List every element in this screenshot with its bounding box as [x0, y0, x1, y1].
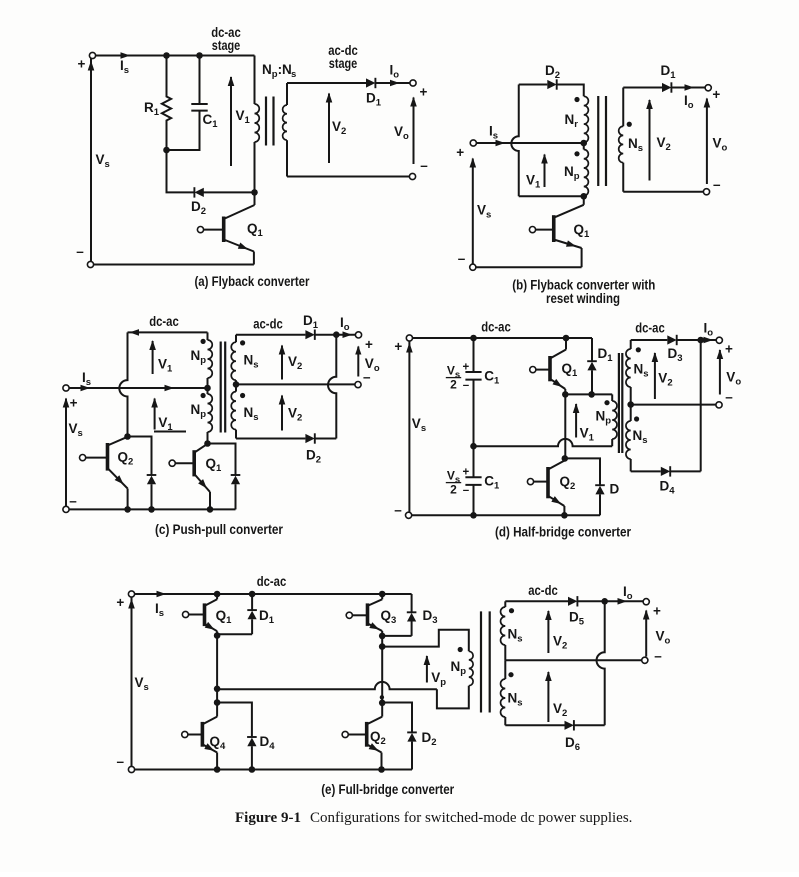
- terminal output -: [703, 189, 709, 195]
- transistor Q3: [366, 603, 370, 626]
- lower primary winding Np: [207, 388, 209, 394]
- transistor Q1: [222, 217, 226, 243]
- terminal - (bottom left): [87, 261, 93, 267]
- terminal + (left): [128, 591, 134, 597]
- current arrow Is: [121, 52, 131, 59]
- wire secondary bottom: [623, 191, 703, 193]
- node right leg junction: [379, 643, 386, 650]
- wire D2 to reset winding: [557, 85, 584, 97]
- node R1-C1 bottom: [163, 147, 170, 154]
- wire secondary bottom: [287, 176, 409, 178]
- svg-text:+: +: [725, 342, 733, 357]
- wire secondary top to D1: [236, 334, 305, 336]
- diode D3: [667, 335, 676, 344]
- polarity dot lower Np: [201, 393, 206, 398]
- svg-text:dc-ac: dc-ac: [635, 321, 665, 336]
- svg-text:–: –: [458, 251, 466, 266]
- wire bottom rail: [69, 508, 235, 510]
- svg-text:dc-ac: dc-ac: [257, 574, 287, 589]
- node secondary center tap (d): [627, 401, 634, 408]
- wire top (source to primary): [96, 55, 255, 57]
- terminal output +: [355, 332, 361, 338]
- transformer T1 core: [265, 97, 267, 146]
- wire left rail Vs: [65, 399, 67, 507]
- wire right leg down through hop: [381, 647, 383, 703]
- terminal output - (e): [642, 657, 648, 663]
- node Q2 diode bottom: [148, 506, 155, 513]
- transistor Q1 (e): [203, 603, 207, 626]
- freewheeling diode at Q1: [208, 444, 236, 476]
- primary winding Np: [584, 150, 589, 196]
- wire secondary bottom to D6: [505, 724, 564, 726]
- current arrow Is near source: [81, 385, 91, 392]
- voltage arrow V1 (d): [575, 404, 577, 438]
- node diode junction: [333, 331, 340, 338]
- voltage arrow Vo: [357, 347, 359, 377]
- terminal - (bottom left): [128, 766, 134, 772]
- transformer T1 secondary winding: [286, 83, 288, 105]
- wire left leg to Np with hop: [217, 682, 437, 689]
- wire between windings: [583, 143, 585, 150]
- svg-text:(d) Half-bridge converter: (d) Half-bridge converter: [495, 525, 632, 540]
- node center tap primary: [204, 385, 211, 392]
- terminal - (bottom left): [406, 512, 412, 518]
- transistor Q1 (d): [548, 356, 552, 381]
- node primary bottom: [580, 193, 587, 200]
- voltage arrow Vo: [706, 99, 708, 185]
- node Q2 emitter bottom (e): [378, 766, 385, 773]
- wire D1 to output terminal: [375, 82, 410, 84]
- transformer core (d): [618, 353, 620, 453]
- voltage arrow V1: [544, 155, 546, 188]
- source arrow Vs: [406, 343, 413, 353]
- node Q2 emitter bottom: [124, 506, 131, 513]
- diode D2: [194, 188, 203, 197]
- wire output junction leg: [700, 340, 702, 471]
- transformer core (e): [480, 611, 482, 712]
- polarity dot upper Ns: [240, 340, 245, 345]
- wire secondary bottom to D4: [631, 470, 661, 472]
- source arrow Vs: [88, 61, 95, 71]
- terminal output -: [355, 382, 361, 388]
- transistor Q2 (c): [106, 443, 110, 471]
- current arrow Io: [390, 80, 400, 87]
- node D1 bottom junction: [588, 391, 595, 398]
- wire emitter row to primary: [565, 393, 612, 395]
- svg-text:(e) Full-bridge converter: (e) Full-bridge converter: [321, 782, 455, 797]
- svg-text:–: –: [394, 503, 402, 518]
- diode D1: [366, 78, 375, 87]
- wire top rail: [135, 593, 412, 595]
- voltage arrow Vo (e): [645, 611, 647, 657]
- upper secondary winding Ns: [235, 335, 237, 343]
- svg-text:–: –: [420, 158, 428, 173]
- svg-text:–: –: [76, 244, 84, 259]
- wire top rail: [413, 337, 593, 339]
- node center tap: [580, 140, 587, 147]
- reset winding Nr: [584, 96, 589, 142]
- wire left leg down: [216, 636, 218, 689]
- svg-text:2: 2: [450, 483, 457, 497]
- polarity dot upper Np: [201, 339, 206, 344]
- wire secondary top to D1: [623, 87, 662, 89]
- svg-text:+: +: [70, 396, 78, 411]
- terminal + (left): [406, 335, 412, 341]
- svg-text:–: –: [117, 754, 125, 769]
- current arrow Is: [496, 140, 506, 147]
- terminal + (left): [63, 385, 69, 391]
- wire D2 to corner: [315, 438, 337, 440]
- current arrow Is (e): [157, 591, 167, 598]
- svg-text:+: +: [456, 145, 464, 160]
- wire D1 to output terminal: [315, 334, 356, 336]
- svg-text:+: +: [365, 337, 373, 352]
- transformer T1 primary winding: [254, 56, 256, 105]
- wire center tap to output -: [236, 383, 355, 385]
- node Q1 collector top: [563, 335, 570, 342]
- wire D5 to output terminal: [577, 600, 643, 602]
- node D1 top: [249, 591, 256, 598]
- wire D3 to output terminal: [677, 339, 717, 341]
- svg-text:–: –: [463, 485, 470, 497]
- svg-text:dc-ac: dc-ac: [149, 314, 179, 329]
- circuit (c) Push-pull converter: [63, 313, 380, 537]
- transistor Q2 (e): [365, 722, 369, 747]
- node below hop (e): [380, 695, 384, 699]
- wire D1 bottom to Q1 emitter: [217, 633, 252, 635]
- diode D antiparallel at Q2: [565, 458, 600, 485]
- source arrow Vs (e): [128, 599, 135, 609]
- node Q4 emitter bottom: [214, 766, 221, 773]
- node Q1 collector top: [214, 591, 221, 598]
- wire Is to center tap: [476, 142, 583, 144]
- polarity dot upper Ns (e): [509, 608, 514, 613]
- current arrow Io (e): [618, 598, 628, 605]
- node bottom C1 branch: [470, 512, 477, 519]
- current arrow Io: [685, 84, 695, 91]
- wire bottom return: [476, 266, 582, 268]
- svg-text:D: D: [610, 482, 620, 497]
- upper voltage arrow V1: [152, 341, 154, 374]
- voltage arrow Vo (d): [719, 350, 721, 395]
- circuit (d) Half-bridge converter: [394, 320, 741, 540]
- wire Is to center tap: [69, 387, 207, 389]
- lower voltage arrow V2 (e): [547, 672, 549, 722]
- upper secondary winding Ns (e): [504, 601, 506, 607]
- svg-text:+: +: [463, 467, 470, 479]
- node capacitor midpoint: [470, 443, 477, 450]
- voltage arrow Vo: [413, 98, 415, 165]
- primary winding Np (e): [469, 651, 473, 685]
- node D4 bottom: [249, 766, 256, 773]
- terminal output + (d): [716, 337, 722, 343]
- wire left leg lower: [216, 689, 218, 703]
- arrow on top wire: [130, 329, 140, 336]
- wire midpoint leg: [564, 394, 566, 458]
- svg-text:–: –: [713, 177, 721, 192]
- polarity dot Np (d): [604, 400, 609, 405]
- terminal output + (e): [643, 599, 649, 605]
- voltage arrow V2: [649, 100, 651, 181]
- svg-text:stage: stage: [212, 38, 241, 53]
- wire secondary top to D5: [505, 600, 568, 602]
- capacitor C1: [199, 56, 201, 105]
- node Q1 emitter junction: [214, 632, 221, 639]
- svg-text:2: 2: [450, 378, 457, 392]
- primary winding Np (d): [611, 394, 613, 401]
- svg-text:+: +: [653, 604, 661, 619]
- node left leg to transformer: [214, 686, 221, 693]
- wire bottom left segment: [519, 195, 584, 197]
- node Q3 emitter junction: [379, 633, 386, 640]
- polarity dot Np (e): [458, 647, 463, 652]
- diode D1: [662, 83, 671, 92]
- svg-text:+: +: [394, 339, 402, 354]
- svg-text:reset winding: reset winding: [546, 291, 620, 306]
- svg-text:–: –: [69, 494, 77, 509]
- svg-text:Figure 9-1Configurations for s: Figure 9-1Configurations for switched-mo…: [235, 810, 632, 826]
- diode D2 (c): [305, 434, 314, 443]
- terminal output -: [409, 173, 415, 179]
- terminal + (top left): [89, 52, 95, 58]
- wire D1 to output terminal: [671, 87, 705, 89]
- wire bottom rail: [412, 514, 600, 516]
- node Q1 emitter bottom: [207, 506, 214, 513]
- polarity dot upper Ns (d): [636, 347, 641, 352]
- lower secondary winding Ns: [235, 384, 237, 391]
- polarity dot Ns: [627, 122, 632, 127]
- diode D3 (e): [411, 594, 413, 612]
- svg-text:–: –: [725, 390, 733, 405]
- wire right leg to Np top: [381, 636, 383, 647]
- freewheeling diode at Q2: [128, 437, 152, 476]
- wire left rail Vs: [90, 59, 92, 264]
- svg-text:s: s: [291, 69, 296, 80]
- node Q1 collector: [204, 440, 211, 447]
- lower voltage arrow V2: [281, 396, 283, 431]
- terminal - (bottom left): [63, 506, 69, 512]
- terminal output +: [705, 85, 711, 91]
- polarity dot lower Ns (e): [508, 672, 513, 677]
- svg-text:+: +: [116, 595, 124, 610]
- wire left rail Vs: [408, 341, 410, 512]
- lower voltage arrow V1: [154, 399, 156, 430]
- svg-text:(c) Push-pull converter: (c) Push-pull converter: [155, 522, 284, 537]
- wire top to diode D2: [519, 84, 548, 86]
- terminal + (left): [470, 140, 476, 146]
- transformer core (b): [597, 96, 599, 186]
- wire Np top connection: [382, 630, 469, 652]
- svg-text:ac-dc: ac-dc: [528, 583, 558, 598]
- lower secondary winding Ns (d): [630, 405, 632, 421]
- voltage arrow V2 (d): [654, 353, 656, 399]
- svg-text:+: +: [420, 85, 428, 100]
- wire bottom (emitter return): [94, 264, 254, 266]
- capacitor C1 lower: [473, 446, 475, 477]
- diode D6: [565, 721, 574, 730]
- node Q2 collector junction (e): [379, 700, 386, 707]
- source arrow Vs: [63, 398, 70, 408]
- wire Np bottom connection: [437, 686, 469, 709]
- wire secondary top to D3: [631, 339, 668, 341]
- wire bottom rail: [135, 769, 412, 771]
- node output junction (d): [697, 337, 704, 344]
- node output junction (e): [601, 598, 608, 605]
- transistor Q1 (c): [192, 450, 196, 476]
- wire Q2 collector leg with hop: [119, 332, 127, 436]
- voltage arrow Vp: [426, 656, 428, 683]
- diode D5: [568, 597, 577, 606]
- diode D1 (d) antiparallel: [591, 338, 593, 361]
- wire left rail Vs: [131, 597, 133, 766]
- upper voltage arrow V2: [281, 346, 283, 380]
- wire snubber to diode D2: [167, 150, 194, 192]
- polarity dot Np: [574, 151, 579, 156]
- wire left rail Vs: [472, 159, 474, 265]
- wire D6 to corner: [574, 724, 605, 726]
- lower secondary winding Ns (e): [504, 660, 506, 679]
- node Q1 emitter junction: [562, 391, 569, 398]
- wire D3 bottom to Q3 emitter: [382, 635, 411, 637]
- wire top (upper primary to Q2 leg): [128, 331, 208, 333]
- terminal output +: [410, 80, 416, 86]
- upper primary winding Np: [207, 332, 209, 340]
- terminal - (bottom left): [470, 264, 476, 270]
- current arrow Io (d): [704, 337, 714, 344]
- svg-text:+: +: [712, 87, 720, 102]
- node Q2 collector junction: [562, 455, 569, 462]
- voltage arrow V1: [230, 77, 232, 166]
- circuit (b) Flyback converter with reset winding: [456, 63, 727, 306]
- node Q4 collector junction: [214, 699, 221, 706]
- node Q3 collector top: [379, 591, 386, 598]
- secondary winding Ns: [622, 88, 624, 127]
- circuit (e) Full-bridge converter: [116, 574, 670, 797]
- svg-text:–: –: [463, 380, 470, 392]
- svg-text:stage: stage: [329, 56, 358, 71]
- diode D4 (e): [217, 703, 252, 738]
- transistor Q2 (d): [546, 467, 550, 498]
- voltage arrow V2: [328, 94, 330, 164]
- node C1 top: [196, 52, 203, 59]
- polarity dot lower Ns: [240, 393, 245, 398]
- terminal output - (d): [716, 402, 722, 408]
- wire left branch with crossover hop: [511, 85, 518, 197]
- transistor Q1 (b): [552, 215, 556, 242]
- wire center tap to output -: [631, 404, 716, 406]
- diode D2 (e): [382, 703, 412, 733]
- transformer core (c): [220, 342, 222, 433]
- node top C1 branch: [470, 335, 477, 342]
- node Q2 emitter bottom: [561, 512, 568, 519]
- circuit (a) Flyback converter: [76, 25, 428, 289]
- node secondary center tap: [233, 381, 240, 388]
- resistor R1: [162, 56, 171, 151]
- current arrow Io: [343, 331, 353, 338]
- svg-text:ac-dc: ac-dc: [253, 317, 283, 332]
- wire secondary bottom to D2: [236, 438, 305, 440]
- svg-text:+: +: [463, 362, 470, 374]
- node R1 top: [163, 52, 170, 59]
- polarity dot Nr: [574, 97, 579, 102]
- svg-text:+: +: [78, 57, 86, 72]
- node collector junction: [251, 189, 258, 196]
- svg-text:–: –: [363, 370, 371, 385]
- source arrow Vs: [470, 158, 477, 168]
- wire diode junction down with crossover hop: [328, 335, 336, 439]
- transistor Q4: [201, 722, 205, 747]
- polarity dot lower Ns (d): [634, 416, 639, 421]
- svg-text:–: –: [654, 649, 662, 664]
- diode D2: [547, 80, 556, 89]
- svg-text:(a) Flyback converter: (a) Flyback converter: [195, 274, 311, 289]
- node Q2 collector: [124, 433, 131, 440]
- wire output junction leg with crossover hop (e): [597, 601, 605, 725]
- current arrow into tap: [165, 385, 175, 392]
- wire center tap to output -: [505, 659, 641, 661]
- reference line under V1: [154, 431, 186, 433]
- diode D4: [661, 467, 670, 476]
- diode D1 (c): [305, 330, 314, 339]
- capacitor C1 upper: [473, 338, 475, 372]
- wire D4 to corner: [670, 470, 701, 472]
- upper secondary winding Ns (d): [630, 340, 632, 349]
- diode D1 (e): [251, 594, 253, 610]
- svg-text:dc-ac: dc-ac: [481, 320, 511, 335]
- wire D2 to collector node: [203, 191, 254, 193]
- wire secondary top to D1: [287, 82, 366, 84]
- wire primary return to cap midpoint with hop: [474, 439, 613, 446]
- upper voltage arrow V2 (e): [547, 611, 549, 653]
